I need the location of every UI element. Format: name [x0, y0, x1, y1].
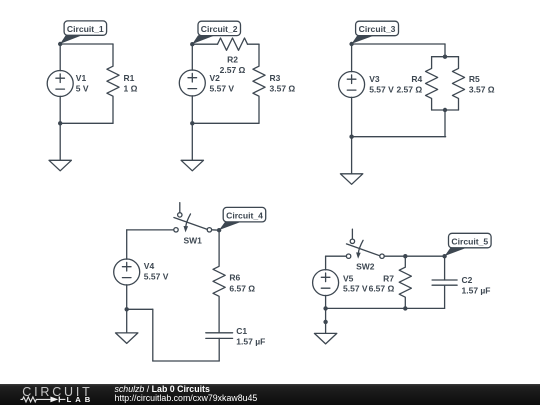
label V3 value: [369, 74, 394, 95]
svg-text:Circuit_5: Circuit_5: [451, 236, 488, 246]
label V4 value: [144, 261, 169, 281]
label SW2: [356, 262, 375, 272]
wire: [352, 136, 446, 138]
svg-text:R5: R5: [469, 74, 480, 84]
node dot: [349, 135, 353, 139]
voltage source V4: [114, 259, 140, 285]
wire: [444, 44, 446, 57]
resistor R7: [399, 256, 411, 308]
svg-text:5.57 V: 5.57 V: [343, 284, 368, 294]
label C2 value: [462, 275, 491, 296]
label Circuit_3: [352, 21, 399, 44]
label C1 value: [236, 326, 265, 347]
label R1 value: [124, 73, 138, 93]
wire: [126, 230, 128, 259]
resistor R1: [107, 44, 119, 123]
node dot: [323, 306, 327, 310]
node dot: [403, 254, 407, 258]
wire: [60, 43, 113, 45]
resistor R6: [213, 230, 225, 333]
wire: [384, 255, 444, 257]
footer line 1: [115, 385, 210, 394]
wire: [352, 43, 445, 45]
capacitor C2: [432, 256, 457, 308]
label R4 value: [396, 74, 422, 95]
svg-text:V1: V1: [76, 73, 87, 83]
label SW1: [183, 235, 202, 245]
wire: [192, 122, 259, 124]
label Circuit_2: [192, 21, 240, 44]
footer line 2: [115, 394, 258, 403]
node dot: [58, 121, 62, 125]
ground: [116, 309, 138, 343]
svg-text:R6: R6: [229, 272, 240, 282]
svg-text:1 Ω: 1 Ω: [124, 84, 138, 94]
wire: [351, 97, 353, 136]
svg-text:6.57 Ω: 6.57 Ω: [229, 283, 255, 293]
wire: [248, 43, 260, 45]
svg-text:3.57 Ω: 3.57 Ω: [270, 84, 296, 94]
svg-text:C2: C2: [462, 275, 473, 285]
label R7 value: [369, 274, 395, 294]
label V5 value: [343, 274, 368, 294]
wire: [126, 285, 128, 310]
label Circuit_1: [60, 21, 106, 44]
label R3 value: [270, 73, 296, 93]
voltage source V2: [179, 70, 205, 96]
resistor R4: [426, 57, 438, 110]
resistor R2: [218, 38, 248, 50]
svg-text:5.57 V: 5.57 V: [369, 85, 394, 95]
wire: [59, 96, 61, 123]
wire: [59, 44, 61, 71]
resistor R3: [253, 44, 265, 123]
svg-text:R3: R3: [270, 73, 281, 83]
wire: [325, 256, 327, 270]
svg-text:Circuit_1: Circuit_1: [67, 24, 104, 34]
svg-text:R4: R4: [411, 74, 422, 84]
wire: [127, 229, 174, 231]
wire: [60, 122, 113, 124]
svg-text:R1: R1: [124, 73, 135, 83]
wire: [351, 44, 353, 72]
svg-text:2.57 Ω: 2.57 Ω: [220, 65, 246, 75]
node dot: [58, 42, 62, 46]
svg-text:SW2: SW2: [356, 262, 375, 272]
voltage source V1: [47, 71, 73, 97]
svg-text:2.57 Ω: 2.57 Ω: [396, 85, 422, 95]
voltage source V3: [339, 72, 365, 98]
wire: [153, 360, 219, 362]
wire: [432, 56, 459, 58]
svg-text:3.57 Ω: 3.57 Ω: [469, 85, 495, 95]
node dot: [443, 55, 447, 59]
label V1 value: [76, 73, 89, 93]
svg-text:V4: V4: [144, 261, 155, 271]
svg-text:Circuit_2: Circuit_2: [201, 24, 238, 34]
svg-text:5 V: 5 V: [76, 84, 89, 94]
label R5 value: [469, 74, 495, 95]
capacitor C1: [206, 333, 233, 361]
node dot: [190, 42, 194, 46]
svg-text:R7: R7: [383, 274, 394, 284]
wire: [326, 255, 347, 257]
node dot: [349, 42, 353, 46]
svg-text:Circuit_3: Circuit_3: [359, 24, 396, 34]
logo resistor-diode glyph: [18, 394, 68, 405]
label Circuit_5: [445, 233, 492, 256]
wire: [127, 308, 153, 310]
switch SW1: [174, 203, 212, 233]
svg-text:5.57 V: 5.57 V: [144, 272, 169, 282]
svg-text:V5: V5: [343, 274, 354, 284]
wire: [212, 229, 220, 231]
node dot: [442, 254, 446, 258]
node dot: [323, 320, 327, 324]
svg-text:R2: R2: [227, 55, 238, 65]
node dot: [443, 108, 447, 112]
voltage source V5: [313, 270, 339, 296]
node dot: [125, 307, 129, 311]
node dot: [190, 121, 194, 125]
svg-text:V2: V2: [210, 73, 221, 83]
label V2 value: [210, 73, 235, 93]
svg-text:Circuit_4: Circuit_4: [226, 210, 263, 220]
label Circuit_4: [219, 207, 266, 230]
node dot: [403, 306, 407, 310]
wire: [191, 44, 193, 70]
svg-text:5.57 V: 5.57 V: [210, 84, 235, 94]
switch SW2: [346, 229, 384, 259]
svg-text:C1: C1: [236, 326, 247, 336]
wire: [325, 295, 327, 308]
node dot: [217, 228, 221, 232]
resistor R5: [452, 57, 464, 110]
wire: [444, 110, 446, 137]
label R6 value: [229, 272, 255, 293]
ground: [49, 123, 71, 171]
wire: [326, 307, 445, 309]
svg-text:SW1: SW1: [183, 235, 202, 245]
svg-text:1.57 µF: 1.57 µF: [236, 337, 265, 347]
footer bar: [0, 384, 540, 405]
wire: [192, 43, 217, 45]
wire: [191, 96, 193, 124]
svg-text:V3: V3: [369, 74, 380, 84]
ground: [314, 308, 336, 344]
CircuitLab logo wordmark: [22, 386, 92, 399]
label R2 value: [220, 55, 246, 76]
svg-text:6.57 Ω: 6.57 Ω: [369, 284, 395, 294]
wire: [432, 109, 459, 111]
svg-text:1.57 µF: 1.57 µF: [462, 285, 491, 295]
wire: [152, 309, 154, 361]
ground: [340, 137, 362, 185]
ground: [181, 123, 203, 171]
logo LAB text: [67, 396, 95, 404]
